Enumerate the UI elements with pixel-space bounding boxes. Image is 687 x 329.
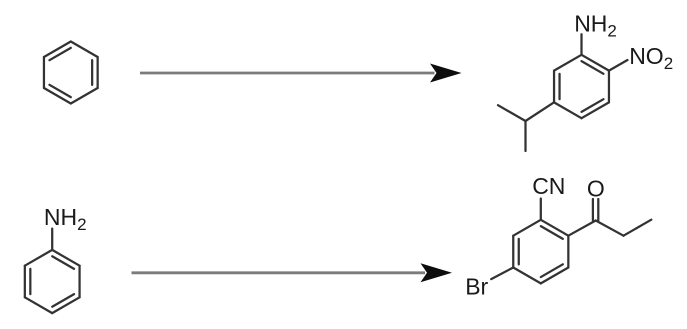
wire C=O double bond line 1 <box>592 199 594 221</box>
wire aniline ring edge UL-T <box>25 250 52 266</box>
wire bromo-ring ring edge B-LL <box>513 268 541 284</box>
wire aniline double-bond inner line T-UR <box>52 256 74 269</box>
wire bromo-ring double-bond inner line UL-LL <box>518 239 520 264</box>
svg-text:Br: Br <box>465 273 488 299</box>
svg-text:NH2: NH2 <box>574 11 617 41</box>
wire bromo-ring double-bond inner line T-UR <box>541 226 563 239</box>
wire bond ring to NO2 <box>609 60 628 71</box>
wire benzene ring edge UL-T <box>44 42 71 58</box>
wire benzene double-bond inner line B-LL <box>49 85 70 97</box>
wire bond carbonyl C to CH2 <box>596 221 624 236</box>
wire nitroaniline double-bond inner line B-LR <box>582 99 604 112</box>
wire nitroaniline ring edge LL-UL <box>553 71 555 103</box>
wire bromo-ring ring edge UL-T <box>513 220 541 236</box>
wire benzene ring edge B-LL <box>44 88 71 104</box>
reaction arrow 2 head <box>421 263 453 282</box>
svg-text:CN: CN <box>532 173 565 199</box>
wire bromo-ring double-bond inner line B-LR <box>541 264 563 277</box>
wire bond CH to methyl (down) <box>524 121 526 151</box>
wire bond ring to Br <box>491 268 513 280</box>
wire nitroaniline ring edge B-LL <box>554 102 581 118</box>
wire benzene ring edge LR-B <box>71 88 98 104</box>
wire nitroaniline double-bond inner line UL-LL <box>558 74 560 99</box>
wire bromo-ring ring edge LL-UL <box>512 236 514 268</box>
wire bond ring to CN <box>540 199 542 220</box>
product 5-bromo-2-propanoylbenzonitrile (bottom-right) <box>491 199 651 284</box>
svg-text:NO2: NO2 <box>629 43 673 73</box>
wire nitroaniline ring edge UR-LR <box>608 71 610 103</box>
wire aniline ring edge B-LL <box>25 297 52 313</box>
wire C=O double bond line 2 <box>597 199 599 221</box>
wire benzene ring edge UR-LR <box>97 57 99 88</box>
wire bromo-ring ring edge LR-B <box>541 268 569 284</box>
wire bond ring to isopropyl CH <box>526 102 555 121</box>
wire bond ring to NH2 <box>51 229 53 250</box>
wire aniline ring edge UR-LR <box>78 266 80 298</box>
wire nitroaniline ring edge LR-B <box>582 102 609 118</box>
wire bond ring to carbonyl C <box>568 221 595 236</box>
reaction arrow 2 shaft <box>132 271 426 274</box>
wire bond CH2 to CH3 <box>624 220 652 236</box>
reaction arrow 1 shaft <box>140 72 435 75</box>
wire benzene double-bond inner line UL-T <box>49 48 70 60</box>
svg-text:O: O <box>587 176 605 202</box>
wire bond CH to methyl (upper-left) <box>498 105 526 121</box>
wire benzene ring edge T-UR <box>71 42 98 58</box>
wire aniline ring edge LL-UL <box>24 266 26 298</box>
wire bromo-ring ring edge UR-LR <box>567 236 569 268</box>
wire aniline ring edge LR-B <box>52 297 79 313</box>
reaction arrow 1 head <box>430 64 462 83</box>
wire aniline double-bond inner line B-LR <box>52 294 74 307</box>
product 5-isopropyl-2-nitroaniline (top-right) <box>498 34 628 151</box>
wire bond ring to NH2 <box>580 34 582 55</box>
wire aniline ring edge T-UR <box>52 250 79 266</box>
benzene reactant (top-left) <box>44 42 98 104</box>
wire nitroaniline ring edge T-UR <box>582 55 609 71</box>
svg-text:NH2: NH2 <box>44 204 87 234</box>
wire bromo-ring ring edge T-UR <box>541 220 569 236</box>
wire benzene double-bond inner line UR-LR <box>91 60 93 85</box>
wire nitroaniline ring edge UL-T <box>554 55 581 71</box>
aniline reactant (bottom-left) <box>25 229 80 314</box>
wire aniline double-bond inner line UL-LL <box>29 269 31 294</box>
wire nitroaniline double-bond inner line T-UR <box>582 61 604 74</box>
wire benzene ring edge LL-UL <box>43 57 45 88</box>
